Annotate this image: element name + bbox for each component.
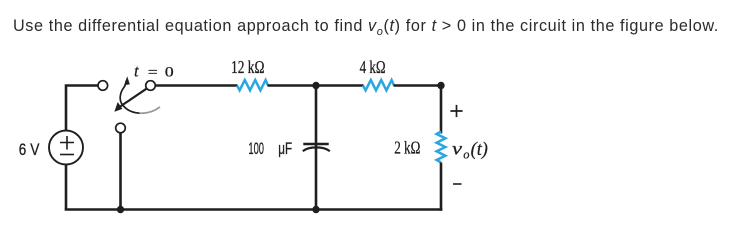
voltage source V1 circle: [49, 131, 83, 165]
label vo(t): [452, 139, 488, 162]
svg-text:12 kΩ: 12 kΩ: [231, 57, 265, 77]
switch blade with arrowhead: [114, 88, 147, 112]
resistor R2 4 kOhm zigzag: [363, 80, 394, 90]
switch bottom contact: [116, 123, 126, 133]
switch motion arrow gray tail: [140, 107, 161, 113]
wire left rail lower: [65, 164, 68, 210]
svg-text:=: =: [148, 65, 158, 80]
voltage source minus sign: [60, 154, 74, 156]
capacitor C1 top plate: [303, 143, 328, 145]
svg-text:2 kΩ: 2 kΩ: [394, 138, 420, 158]
wire right rail lower: [441, 163, 442, 211]
switch pole contact: [146, 81, 156, 91]
wire top-left segment and left rail upper: [66, 86, 98, 132]
svg-text:4 kΩ: 4 kΩ: [360, 57, 386, 77]
svg-text:t: t: [134, 61, 140, 80]
svg-text:0: 0: [165, 64, 174, 80]
svg-text:v: v: [452, 139, 462, 159]
junction dot bottom left: [117, 206, 124, 213]
svg-text:o: o: [463, 148, 469, 162]
wire pole to R1: [155, 84, 237, 87]
voltage source plus sign: [60, 136, 74, 150]
label t = 0: [134, 61, 174, 80]
resistor R3 2 kOhm vertical zigzag: [437, 132, 446, 163]
svg-text:6: 6: [19, 141, 27, 159]
switch motion arrow black arc: [120, 81, 139, 114]
junction dot bottom middle: [312, 206, 319, 213]
svg-text:μF: μF: [278, 140, 292, 158]
label 100 uF: [248, 140, 292, 158]
svg-text:100: 100: [248, 140, 264, 158]
junction node A dot: [312, 82, 319, 89]
wire R1 to junction to R2: [268, 84, 364, 87]
svg-text:(t): (t): [471, 139, 488, 160]
wire R2 to top-right corner: [394, 86, 442, 134]
resistor R1 12 kOhm zigzag: [237, 80, 268, 90]
plus label output: [450, 105, 462, 117]
wire bottom rail: [65, 208, 443, 211]
node top-right dot: [437, 82, 444, 89]
wire capacitor branch top: [315, 86, 318, 210]
svg-text:V: V: [30, 141, 39, 159]
switch motion arrowhead: [124, 76, 130, 85]
switch contact left: [98, 81, 108, 91]
capacitor C1 curved plate: [303, 147, 330, 151]
wire switch bottom to rail: [119, 133, 122, 210]
minus label output: [453, 183, 462, 185]
